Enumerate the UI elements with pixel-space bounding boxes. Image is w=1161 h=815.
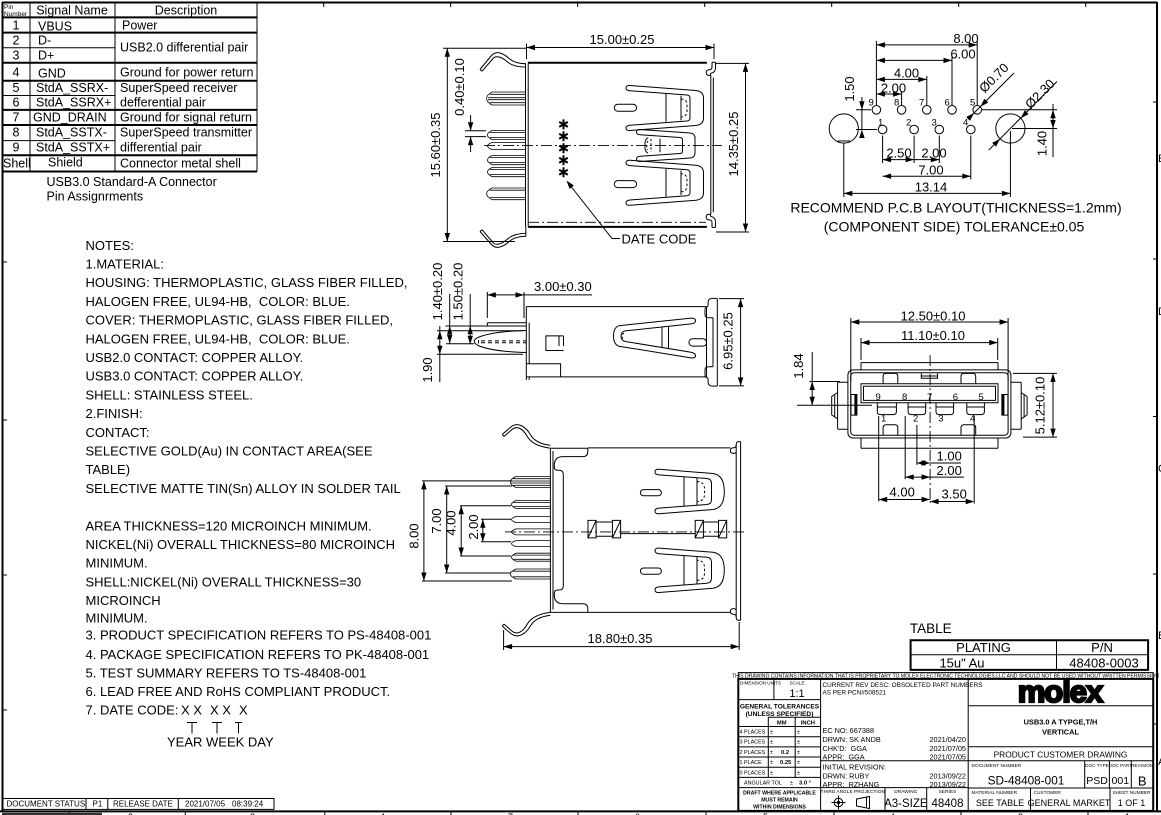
svg-text:15.60±0.35: 15.60±0.35 <box>428 113 443 178</box>
svg-text:12.50±0.10: 12.50±0.10 <box>901 309 966 324</box>
svg-text:3 PLACES: 3 PLACES <box>740 740 766 746</box>
svg-text:DRWN: RUBY: DRWN: RUBY <box>823 771 870 780</box>
tongue <box>861 384 998 403</box>
svg-text:5.12±0.10: 5.12±0.10 <box>1033 377 1048 435</box>
svg-text:DRAWING: DRAWING <box>894 789 917 795</box>
svg-text:REVISION: REVISION <box>1131 763 1153 768</box>
lower contact spring <box>626 160 704 205</box>
bottom dash-dot line <box>528 221 706 223</box>
svg-text:5: 5 <box>970 98 975 109</box>
pin 1 <box>487 92 526 105</box>
svg-text:9: 9 <box>13 141 20 155</box>
svg-text:4: 4 <box>13 66 20 80</box>
svg-text:9: 9 <box>869 98 874 109</box>
svg-text:±: ± <box>797 750 800 756</box>
svg-text:USB3.0 A TYPGE,T/H: USB3.0 A TYPGE,T/H <box>1024 718 1098 727</box>
svg-text:4.00: 4.00 <box>444 510 459 535</box>
svg-text:AS PER PCN#508521: AS PER PCN#508521 <box>823 689 887 696</box>
svg-text:DOCUMENT NUMBER: DOCUMENT NUMBER <box>972 763 1022 769</box>
svg-text:AREA THICKNESS=120 MICROINCH M: AREA THICKNESS=120 MICROINCH MINIMUM. <box>86 518 372 533</box>
side slots <box>851 395 857 416</box>
svg-text:4.00: 4.00 <box>890 485 915 500</box>
shell right wall with hooks <box>711 75 714 214</box>
top flange <box>504 428 550 449</box>
svg-text:X X: X X <box>210 703 231 718</box>
upper contact spring <box>626 85 704 130</box>
document status strip <box>3 799 274 810</box>
pin 2 <box>488 131 526 140</box>
top edge <box>588 447 731 449</box>
view 3: front (mating face) view <box>791 309 1057 505</box>
svg-text:1.50±0.20: 1.50±0.20 <box>451 263 466 321</box>
svg-text:Description: Description <box>155 4 218 18</box>
svg-text:2.00: 2.00 <box>466 514 481 539</box>
svg-text:08:39:24: 08:39:24 <box>232 800 264 809</box>
svg-text:USB3.0 CONTACT: COPPER ALLOY.: USB3.0 CONTACT: COPPER ALLOY. <box>86 369 304 384</box>
svg-text:SEE TABLE: SEE TABLE <box>976 798 1024 808</box>
svg-text:THIRD ANGLE PROJECTION: THIRD ANGLE PROJECTION <box>821 789 886 795</box>
svg-text:StdA_SSRX+: StdA_SSRX+ <box>36 96 111 110</box>
svg-text:0 PLACES: 0 PLACES <box>740 770 766 776</box>
svg-text:SD-48408-001: SD-48408-001 <box>988 774 1065 788</box>
svg-text:3: 3 <box>932 118 937 129</box>
svg-text:5. TEST SUMMARY REFERS TO TS-4: 5. TEST SUMMARY REFERS TO TS-48408-001 <box>86 665 367 680</box>
third angle projection cell <box>885 788 927 811</box>
vertical centerline <box>929 355 931 503</box>
svg-text:1.00: 1.00 <box>937 449 962 464</box>
right ear <box>1011 382 1021 429</box>
housing top <box>861 363 998 370</box>
svg-text:PLATING: PLATING <box>956 640 1011 655</box>
bottom notches <box>883 425 898 435</box>
svg-text:3. PRODUCT SPECIFICATION REFER: 3. PRODUCT SPECIFICATION REFERS TO PS-48… <box>86 628 432 643</box>
pin 5 <box>488 168 526 177</box>
svg-text:Signal Name: Signal Name <box>36 4 108 18</box>
svg-text:8.00: 8.00 <box>953 31 978 46</box>
svg-text:GND_DRAIN: GND_DRAIN <box>33 111 107 125</box>
table caption <box>47 175 217 204</box>
dimension 15.00+-0.25 <box>527 32 715 59</box>
svg-text:2 PLACES: 2 PLACES <box>740 750 766 756</box>
svg-text:Shield: Shield <box>48 156 83 170</box>
svg-text:D+: D+ <box>38 49 54 63</box>
pin holes top row 9,8,7,6,5 <box>872 106 881 115</box>
svg-text:HOUSING: THERMOPLASTIC, GLASS: HOUSING: THERMOPLASTIC, GLASS FIBER FILL… <box>86 275 408 290</box>
svg-text:NOTES:: NOTES: <box>86 238 134 253</box>
svg-text:1: 1 <box>881 414 886 425</box>
svg-text:1 PLACE: 1 PLACE <box>740 760 763 766</box>
middle contact spring <box>637 129 696 161</box>
svg-text:4. PACKAGE SPECIFICATION REFER: 4. PACKAGE SPECIFICATION REFERS TO PK-48… <box>86 647 430 662</box>
notes block <box>86 238 432 750</box>
svg-text:MUST REMAIN: MUST REMAIN <box>761 798 798 804</box>
lower V spring <box>655 548 724 592</box>
svg-text:Ø0.70: Ø0.70 <box>976 60 1012 96</box>
svg-text:X X: X X <box>181 703 202 718</box>
svg-text:NICKEL(Ni) OVERALL THICKNESS=8: NICKEL(Ni) OVERALL THICKNESS=80 MICROINC… <box>86 537 396 552</box>
plating table <box>910 621 1148 671</box>
right end cap with hooks <box>706 307 708 377</box>
svg-text:defferential pair: defferential pair <box>120 96 206 110</box>
svg-text:1.MATERIAL:: 1.MATERIAL: <box>86 257 165 272</box>
svg-text:2: 2 <box>906 118 911 129</box>
svg-text:HALOGEN FREE, UL94-HB, COLOR:: HALOGEN FREE, UL94-HB, COLOR: BLUE. <box>86 294 350 309</box>
inner notch square <box>546 336 564 351</box>
pin 3 <box>488 143 526 150</box>
view 4: bottom view <box>407 425 746 650</box>
bottom dims ext lines <box>879 416 975 504</box>
svg-text:1 OF 1: 1 OF 1 <box>1118 798 1146 808</box>
svg-text:USB3.0 Standard-A Connector: USB3.0 Standard-A Connector <box>47 175 217 189</box>
left column: units / scale <box>738 679 820 700</box>
svg-text:±: ± <box>770 770 773 776</box>
svg-text:ANGULAR TOL: ANGULAR TOL <box>744 781 782 787</box>
svg-text:±: ± <box>797 740 800 746</box>
svg-text:GENERAL MARKET: GENERAL MARKET <box>1028 798 1111 808</box>
svg-text:CUSTOMER: CUSTOMER <box>1034 790 1062 796</box>
svg-text:0.25: 0.25 <box>780 760 792 766</box>
svg-text:1.40: 1.40 <box>1035 131 1050 156</box>
pin 6 <box>487 188 526 200</box>
svg-text:±: ± <box>790 781 793 787</box>
svg-text:P/N: P/N <box>1091 640 1113 655</box>
svg-text:2: 2 <box>913 414 918 425</box>
svg-text:DATE CODE: DATE CODE <box>622 232 697 247</box>
svg-text:RECOMMEND P.C.B LAYOUT(THICKNE: RECOMMEND P.C.B LAYOUT(THICKNESS=1.2mm) <box>790 200 1121 216</box>
svg-text:DRWN: SK ANDB: DRWN: SK ANDB <box>823 735 881 744</box>
bottom flange <box>480 227 526 248</box>
contact tabs row (pins) <box>877 403 896 415</box>
shell slots <box>614 104 636 111</box>
svg-text:18.80±0.35: 18.80±0.35 <box>588 631 653 646</box>
svg-text:Pin Assignrments: Pin Assignrments <box>47 190 144 204</box>
svg-text:±: ± <box>797 730 800 736</box>
svg-text:4 PLACES: 4 PLACES <box>740 730 766 736</box>
svg-text:13.14: 13.14 <box>915 180 948 195</box>
svg-text:Ø2.30: Ø2.30 <box>1022 76 1058 112</box>
svg-text:7.00: 7.00 <box>918 163 943 178</box>
svg-text:MINIMUM.: MINIMUM. <box>86 556 148 571</box>
pointed tongue <box>474 331 526 353</box>
spring arm <box>614 318 696 358</box>
svg-text:DOCUMENT STATUS: DOCUMENT STATUS <box>7 800 86 809</box>
svg-text:8: 8 <box>13 126 20 140</box>
mounting hole left <box>829 114 858 143</box>
svg-text:1.90: 1.90 <box>420 357 435 382</box>
svg-text:Ground for signal return: Ground for signal return <box>120 111 252 125</box>
svg-text:(COMPONENT SIDE) TOLERANCE±0.0: (COMPONENT SIDE) TOLERANCE±0.05 <box>824 219 1085 235</box>
upper V spring <box>655 469 724 513</box>
centerline <box>484 144 722 146</box>
left dims ext lines <box>422 481 512 581</box>
svg-text:DOC PART: DOC PART <box>1109 763 1133 768</box>
svg-text:2013/09/22: 2013/09/22 <box>929 771 966 780</box>
svg-text:CONTACT:: CONTACT: <box>86 425 150 440</box>
svg-text:DIMENSION UNITS: DIMENSION UNITS <box>740 681 781 686</box>
svg-text:15u" Au: 15u" Au <box>939 656 984 671</box>
svg-text:GND: GND <box>38 67 66 81</box>
title block <box>732 673 1159 811</box>
svg-text:2.00: 2.00 <box>937 463 962 478</box>
top flange <box>480 53 526 70</box>
svg-text:14.35±0.25: 14.35±0.25 <box>726 112 741 177</box>
svg-text:0.40±0.10: 0.40±0.10 <box>452 58 467 116</box>
date code leader <box>564 179 696 247</box>
svg-text:3.50: 3.50 <box>942 487 967 502</box>
svg-text:YEAR WEEK DAY: YEAR WEEK DAY <box>167 735 274 750</box>
svg-text:P1: P1 <box>93 800 103 809</box>
bottom step <box>526 364 560 377</box>
svg-text:8: 8 <box>902 392 907 403</box>
svg-text:SuperSpeed transmitter: SuperSpeed transmitter <box>120 126 252 140</box>
svg-text:PSD: PSD <box>1086 775 1108 787</box>
svg-text:±: ± <box>797 770 800 776</box>
bottom zone ruler <box>0 811 1161 815</box>
pins left <box>510 477 550 488</box>
svg-text:COVER: THERMOPLASTIC, GLASS FI: COVER: THERMOPLASTIC, GLASS FIBER FILLED… <box>86 313 394 328</box>
svg-text:5: 5 <box>979 392 984 403</box>
svg-text:D-: D- <box>38 34 51 48</box>
left wall <box>550 448 553 612</box>
svg-text:±: ± <box>797 760 800 766</box>
svg-text:4.00: 4.00 <box>894 66 919 81</box>
svg-text:SHEET NUMBER: SHEET NUMBER <box>1112 790 1151 796</box>
svg-text:6: 6 <box>13 96 20 110</box>
svg-text:6: 6 <box>953 392 958 403</box>
dimension 0.40+-0.10 <box>452 58 486 152</box>
svg-text:6. LEAD FREE AND RoHS COMPLIAN: 6. LEAD FREE AND RoHS COMPLIANT PRODUCT. <box>86 684 391 699</box>
svg-text:7. DATE CODE:: 7. DATE CODE: <box>86 703 179 718</box>
svg-text:molex: molex <box>1018 674 1104 709</box>
svg-text:Shell: Shell <box>3 157 31 171</box>
svg-text:6.00: 6.00 <box>950 47 975 62</box>
svg-text:1: 1 <box>13 19 20 33</box>
sheet frame left edge <box>3 2 8 811</box>
small slot right <box>689 339 707 346</box>
top thin plate <box>487 323 526 326</box>
svg-text:StdA_SSRX-: StdA_SSRX- <box>36 81 108 95</box>
svg-text:3: 3 <box>13 49 20 63</box>
svg-text:Power: Power <box>122 19 157 33</box>
svg-text:Number: Number <box>4 11 28 18</box>
svg-text:3.00±0.30: 3.00±0.30 <box>534 279 592 294</box>
sheet frame right edge <box>1153 2 1161 812</box>
svg-text:differential pair: differential pair <box>120 141 202 155</box>
svg-text:MICROINCH: MICROINCH <box>86 593 161 608</box>
outer border <box>738 679 1153 811</box>
svg-text:7: 7 <box>919 98 924 109</box>
top notches <box>883 373 898 383</box>
svg-text:11.10±0.10: 11.10±0.10 <box>901 328 965 343</box>
svg-text:0.2: 0.2 <box>781 750 789 756</box>
svg-text:48408: 48408 <box>932 798 964 810</box>
svg-text:8.00: 8.00 <box>407 523 422 548</box>
svg-text:TABLE: TABLE <box>910 621 952 636</box>
svg-text:1.40±0.20: 1.40±0.20 <box>430 263 445 321</box>
date code asterisks <box>559 119 568 177</box>
left extension lines <box>446 325 527 327</box>
svg-text:5: 5 <box>13 81 20 95</box>
svg-text:1.50: 1.50 <box>842 76 857 101</box>
svg-text:StdA_SSTX-: StdA_SSTX- <box>36 126 107 140</box>
svg-text:StdA_SSTX+: StdA_SSTX+ <box>36 141 110 155</box>
main vertical dividers <box>821 679 969 811</box>
svg-text:DOC TYPE: DOC TYPE <box>1085 763 1108 768</box>
svg-text:SHELL:NICKEL(Ni) OVERALL THICK: SHELL:NICKEL(Ni) OVERALL THICKNESS=30 <box>86 574 362 589</box>
dimension 14.35+-0.25 <box>716 63 749 232</box>
solder tab squares <box>588 520 727 538</box>
svg-text:2.FINISH:: 2.FINISH: <box>86 406 143 421</box>
svg-text:4: 4 <box>963 118 968 129</box>
mounting hole right <box>996 114 1025 143</box>
svg-text:MINIMUM.: MINIMUM. <box>86 611 148 626</box>
svg-text:±: ± <box>770 730 773 736</box>
svg-text:±: ± <box>770 760 773 766</box>
tol sub-table <box>738 717 820 787</box>
svg-text:1.84: 1.84 <box>791 353 806 378</box>
view 1: side elevation of connector <box>428 32 749 247</box>
dimension 15.60+-0.35 <box>428 48 527 241</box>
svg-text:VBUS: VBUS <box>38 20 72 34</box>
svg-text:7.00: 7.00 <box>429 508 444 533</box>
left ear <box>838 382 848 429</box>
svg-text:SHELL: STAINLESS STEEL.: SHELL: STAINLESS STEEL. <box>86 387 253 402</box>
svg-text:SERIES: SERIES <box>939 789 957 795</box>
svg-text:1: 1 <box>878 118 883 129</box>
svg-text:6.95±0.25: 6.95±0.25 <box>721 312 736 370</box>
svg-text:HALOGEN FREE, UL94-HB, COLOR:: HALOGEN FREE, UL94-HB, COLOR: BLUE. <box>86 331 350 346</box>
svg-text:3.0 °: 3.0 ° <box>799 781 812 787</box>
svg-text:9: 9 <box>876 392 881 403</box>
svg-text:WITHIN DIMENSIONS: WITHIN DIMENSIONS <box>753 805 806 811</box>
svg-text:6: 6 <box>945 98 950 109</box>
svg-text:1:1: 1:1 <box>789 688 804 700</box>
pin holes bottom row 1,2,3,4 <box>878 125 887 134</box>
svg-text:SELECTIVE MATTE TIN(Sn) ALLOY: SELECTIVE MATTE TIN(Sn) ALLOY IN SOLDER … <box>86 481 401 496</box>
proprietary strip <box>738 673 1153 679</box>
right column: molex logo <box>1018 674 1104 709</box>
svg-text:Pin: Pin <box>4 4 14 11</box>
bottom flange <box>504 612 550 633</box>
svg-text:INITIAL REVISION:: INITIAL REVISION: <box>823 763 886 772</box>
svg-text:±: ± <box>770 750 773 756</box>
inner step contour top <box>554 448 588 613</box>
pin assignment table <box>2 2 257 172</box>
svg-text:VERTICAL: VERTICAL <box>1042 728 1079 737</box>
svg-text:DRAFT WHERE APPLICABLE: DRAFT WHERE APPLICABLE <box>743 791 816 797</box>
svg-text:48408-0003: 48408-0003 <box>1069 656 1138 671</box>
svg-text:SCALE: SCALE <box>789 681 804 686</box>
centerline <box>505 531 745 533</box>
svg-text:CHK'D: GGA: CHK'D: GGA <box>823 744 868 753</box>
svg-text:SELECTIVE GOLD(Au) IN CONTACT: SELECTIVE GOLD(Au) IN CONTACT AREA(SEE <box>86 444 373 459</box>
view 2: horizontal side profile <box>420 263 744 386</box>
housing bottom <box>861 438 998 448</box>
svg-text:8: 8 <box>894 98 899 109</box>
body rectangle <box>526 307 706 377</box>
svg-text:RELEASE DATE: RELEASE DATE <box>113 800 173 809</box>
svg-text:B: B <box>1138 774 1147 789</box>
svg-text:EC NO: 667388: EC NO: 667388 <box>823 726 875 735</box>
svg-text:A3-SIZE: A3-SIZE <box>884 798 928 810</box>
svg-text:7: 7 <box>927 392 932 403</box>
svg-text:MM: MM <box>777 721 787 727</box>
svg-text:USB2.0 CONTACT: COPPER ALLOY.: USB2.0 CONTACT: COPPER ALLOY. <box>86 350 304 365</box>
svg-text:CURRENT REV DESC: OBSOLETED PA: CURRENT REV DESC: OBSOLETED PART NUMBERS <box>823 682 983 689</box>
svg-text:TABLE): TABLE) <box>86 462 131 477</box>
svg-text:INCH: INCH <box>801 721 815 727</box>
svg-text:7: 7 <box>13 111 20 125</box>
svg-text:Ground for power return: Ground for power return <box>120 66 253 80</box>
sheet frame top edge <box>257 2 1157 7</box>
svg-text:2021/07/05: 2021/07/05 <box>929 744 966 753</box>
svg-text:PRODUCT CUSTOMER DRAWING: PRODUCT CUSTOMER DRAWING <box>994 750 1128 760</box>
svg-text:2021/07/05: 2021/07/05 <box>185 800 226 809</box>
svg-text:001: 001 <box>1112 775 1130 787</box>
svg-text:Connector metal shell: Connector metal shell <box>120 157 241 171</box>
right wall with hooks <box>736 442 740 621</box>
svg-text:2021/04/20: 2021/04/20 <box>929 735 966 744</box>
svg-text:2: 2 <box>13 34 20 48</box>
shell rounded box <box>848 370 1011 438</box>
svg-text:SuperSpeed receiver: SuperSpeed receiver <box>120 81 237 95</box>
svg-text:3: 3 <box>938 414 943 425</box>
svg-text:15.00±0.25: 15.00±0.25 <box>590 32 655 47</box>
view: recommended PCB layout <box>790 31 1121 235</box>
svg-text:MATERIAL NUMBER: MATERIAL NUMBER <box>972 790 1018 796</box>
svg-text:X: X <box>239 703 248 718</box>
pin 4 <box>488 156 526 165</box>
svg-text:USB2.0 differential pair: USB2.0 differential pair <box>120 41 248 55</box>
svg-text:GENERAL TOLERANCES: GENERAL TOLERANCES <box>740 704 820 711</box>
shell body outline <box>528 62 707 64</box>
svg-text:±: ± <box>770 740 773 746</box>
slots <box>640 490 661 496</box>
